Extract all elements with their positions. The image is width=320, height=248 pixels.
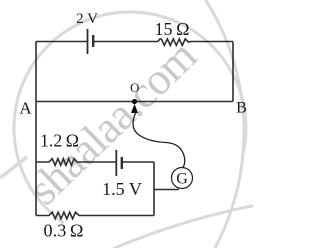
svg-text:A: A: [19, 98, 32, 117]
svg-text:B: B: [236, 99, 247, 117]
svg-text:15 Ω: 15 Ω: [155, 19, 190, 39]
svg-text:1.5 V: 1.5 V: [102, 179, 142, 199]
svg-text:2 V: 2 V: [76, 11, 98, 27]
svg-text:G: G: [176, 171, 188, 188]
svg-text:O: O: [130, 81, 139, 95]
svg-text:1.2 Ω: 1.2 Ω: [40, 131, 79, 151]
svg-text:0.3 Ω: 0.3 Ω: [44, 221, 84, 241]
